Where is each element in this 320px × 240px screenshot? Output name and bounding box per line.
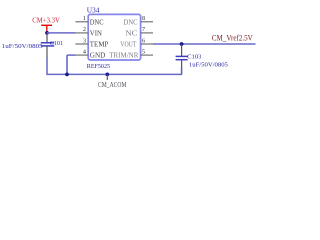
pin 4 stub [76,54,88,56]
wire VOUT to CM_Vref2.5V [153,43,256,45]
pin 6 stub [141,43,153,45]
pin 3 stub [75,43,88,45]
wire C103 lead to ground rail [181,67,183,75]
wire power to VIN pin 2 [47,32,76,34]
wire net label tick [106,74,108,80]
pin 8 stub [141,21,153,23]
wire C101 down to ground rail [46,46,48,57]
svg-text:8: 8 [142,15,145,22]
pin 5 stub [141,54,153,56]
capacitor C103 [176,56,188,59]
junction dot GND-rail [65,73,69,77]
IC U34 REF5025 body [88,14,140,60]
svg-text:5: 5 [142,48,145,55]
svg-text:GND: GND [90,51,106,60]
junction dot power node [45,31,49,35]
junction dot CM_ACOM tap [105,73,109,77]
wire power junction down to C101 [46,34,48,43]
junction dot VOUT-C103 [180,42,184,46]
wire bottom ground rail [46,73,182,75]
capacitor C101 [41,43,54,46]
pin 7 stub [141,32,153,34]
svg-text:3: 3 [83,37,86,44]
wire C103 down to ground rail [181,60,183,67]
svg-text:CM_ACOM: CM_ACOM [98,80,127,89]
wire C101 lead to ground rail [46,58,48,75]
svg-text:CM+3.3V: CM+3.3V [32,16,60,25]
pin 2 stub [76,32,88,34]
svg-text:TRIM/NR: TRIM/NR [109,51,138,60]
power symbol CM+3.3V [32,16,60,33]
svg-text:TEMP: TEMP [90,40,109,49]
pin 1 stub [75,21,88,23]
svg-text:CM_Vref2.5V: CM_Vref2.5V [212,34,253,43]
svg-text:C103: C103 [187,54,202,61]
svg-text:NC: NC [125,28,137,37]
svg-text:C101: C101 [50,40,63,47]
wire GND vertical down [66,55,68,74]
svg-text:REF5025: REF5025 [87,63,111,70]
svg-text:DNC: DNC [124,17,138,26]
svg-text:1: 1 [83,15,86,22]
wire GND pin 4 horizontal [67,54,76,56]
svg-text:VOUT: VOUT [120,40,137,49]
svg-text:6: 6 [142,37,145,44]
wire C103 up to VOUT net [181,45,183,57]
svg-text:2: 2 [83,26,86,33]
svg-text:1uF/50V/0805: 1uF/50V/0805 [2,43,44,50]
svg-text:DNC: DNC [90,17,104,26]
svg-text:4: 4 [83,48,86,55]
svg-text:1uF/50V/0805: 1uF/50V/0805 [189,61,229,68]
svg-text:VIN: VIN [90,28,103,37]
svg-text:U34: U34 [87,7,100,14]
svg-text:7: 7 [142,26,145,33]
